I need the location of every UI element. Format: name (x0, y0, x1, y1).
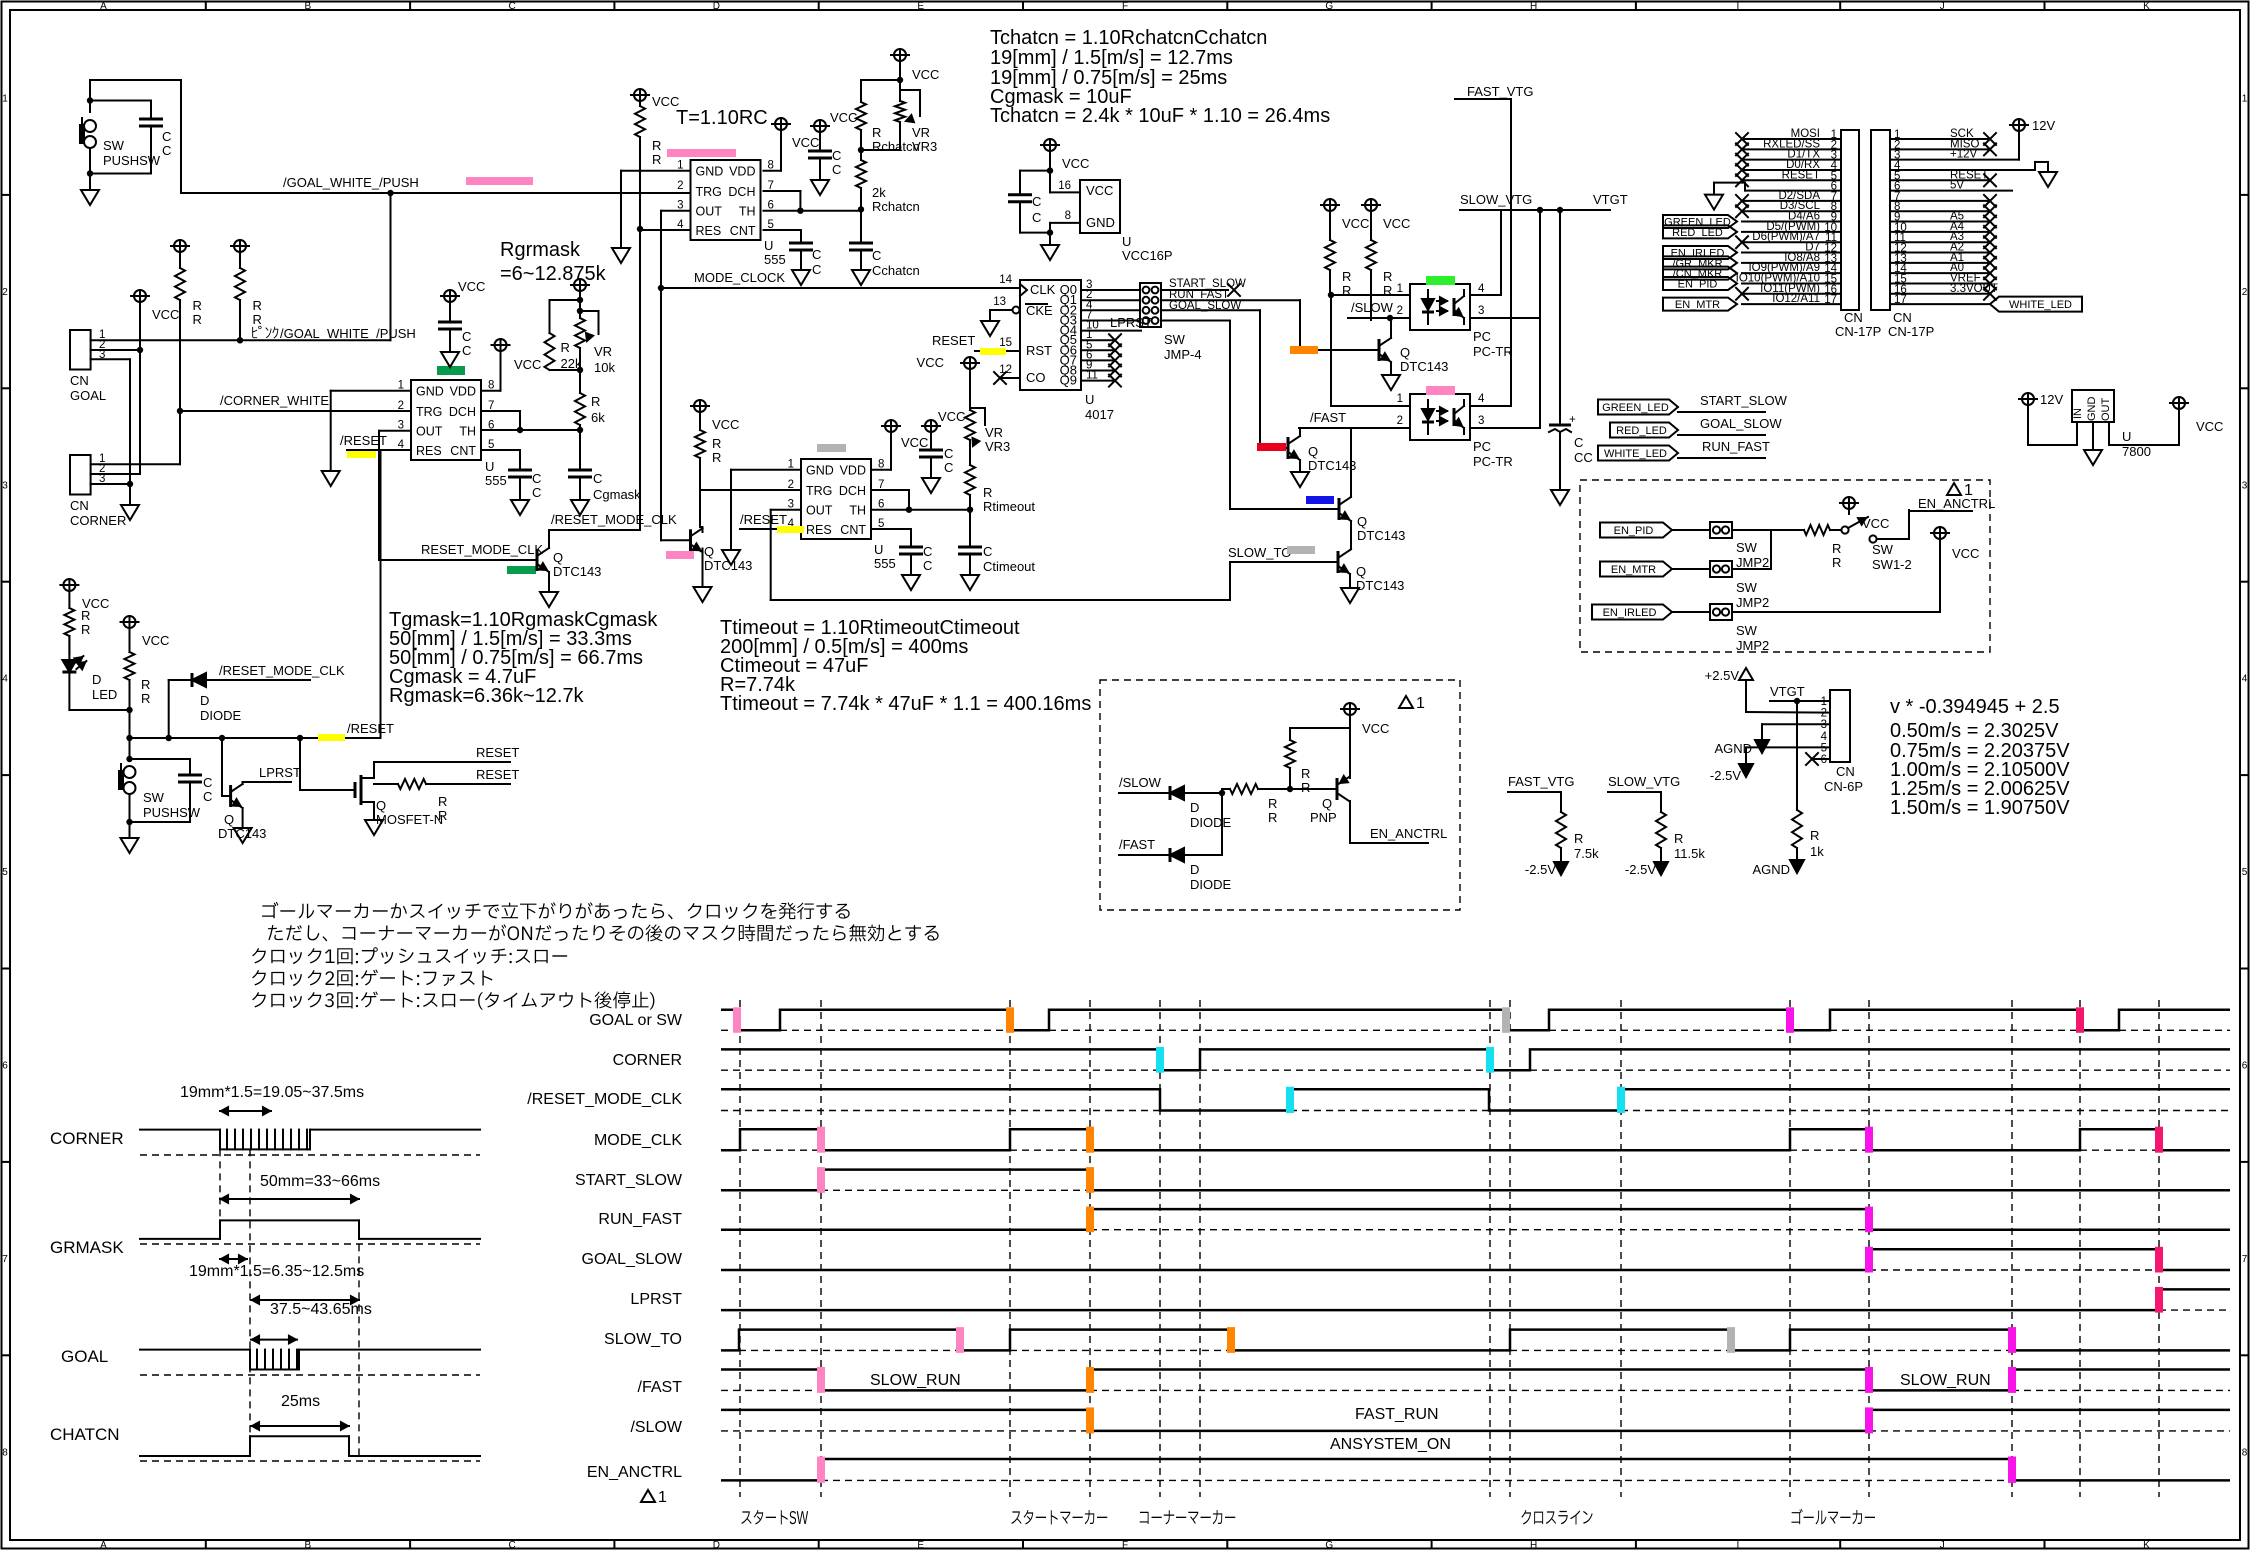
wire 555c gnd pin1 (621, 170, 691, 172)
svg-text:7: 7 (2, 1254, 8, 1265)
highlight red (goal_slow base) (1257, 443, 1286, 451)
timing arrow small (220, 1258, 247, 1260)
svg-text:U: U (2122, 429, 2131, 444)
cn17 left row 3 D1/TX (1742, 159, 1841, 161)
svg-text:RESET: RESET (1782, 169, 1820, 181)
wire 555c cnt pin5 (764, 229, 802, 231)
capacitor C C (reset sw) (130, 758, 191, 760)
svg-text:C: C (1032, 194, 1041, 209)
svg-text:SLOW_VTG: SLOW_VTG (1460, 192, 1532, 207)
highlight orange (run_fast base) (1290, 346, 1318, 354)
capacitor C C (555t vcc) (925, 420, 937, 432)
svg-text:DCH: DCH (839, 484, 866, 498)
wire LPRST (242, 782, 244, 784)
svg-text:+2.5V: +2.5V (1705, 668, 1740, 683)
svg-text:H: H (1530, 1540, 1537, 1550)
svg-text:SLOW_RUN: SLOW_RUN (870, 1372, 961, 1389)
power VCC (chatcn divider) (894, 49, 906, 61)
svg-text:C: C (832, 162, 841, 177)
svg-text:I: I (1737, 1, 1740, 12)
cn17 left row 9 D4/A6 (1742, 221, 1841, 223)
svg-text:MODE_CLOCK: MODE_CLOCK (694, 270, 785, 285)
svg-text:RES: RES (696, 224, 722, 238)
resistor R (reset pullup) (124, 616, 136, 628)
svg-text:R: R (1832, 541, 1841, 556)
svg-text:GND: GND (696, 165, 724, 179)
svg-text:VR3: VR3 (912, 139, 937, 154)
agnd -2.5V (slow) (1654, 862, 1668, 875)
ground (clock gate) (702, 549, 704, 588)
resistor R (reset series) (374, 783, 398, 785)
svg-text:D: D (713, 1, 720, 12)
svg-text:15: 15 (999, 337, 1012, 349)
svg-text:C: C (872, 248, 881, 263)
wire 555t th pin6 (871, 509, 970, 511)
svg-text:R: R (81, 622, 90, 637)
ground (555g pin1) (322, 471, 340, 486)
svg-text:1: 1 (1416, 695, 1425, 712)
svg-text:3: 3 (1478, 305, 1484, 317)
svg-text:C: C (1032, 210, 1041, 225)
svg-text:5: 5 (2242, 867, 2248, 878)
svg-text:J: J (1940, 1540, 1945, 1550)
IC U 555 (chattering timer) (691, 160, 761, 240)
svg-text:+: + (1569, 414, 1576, 426)
svg-text:SLOW_VTG: SLOW_VTG (1608, 774, 1680, 789)
svg-text:C: C (812, 247, 821, 262)
wire goal pin2 (91, 349, 140, 351)
svg-text:D: D (1190, 862, 1199, 877)
wire Q0 (1081, 289, 1140, 291)
svg-text:11.5k: 11.5k (1674, 846, 1705, 861)
svg-text:6: 6 (2242, 1061, 2248, 1072)
svg-text:RED_LED: RED_LED (1672, 227, 1723, 239)
resistor R (mode clk pullup) (634, 89, 646, 101)
svg-text:VTGT: VTGT (1770, 684, 1805, 699)
power VCC (pnp) (1344, 703, 1356, 715)
svg-text:/RESET_MODE_CLK: /RESET_MODE_CLK (527, 1091, 682, 1108)
svg-text:PC-TR: PC-TR (1473, 344, 1513, 359)
svg-text:U: U (1085, 392, 1094, 407)
svg-text:R: R (141, 691, 150, 706)
svg-text:555: 555 (874, 556, 896, 571)
svg-text:16: 16 (1058, 180, 1071, 192)
svg-text:5: 5 (2, 867, 8, 878)
resistor R (pnp base) (1290, 727, 1350, 729)
capacitor C C (555g cnt) (508, 469, 532, 472)
capacitor C CC (vtgt) (1559, 210, 1561, 425)
svg-text:3.3VOUT: 3.3VOUT (1950, 283, 1998, 295)
wire 555c dch pin7 (764, 190, 801, 192)
svg-text:Q: Q (1322, 796, 1332, 811)
note jp 1 (262, 902, 850, 920)
svg-text:RESET: RESET (932, 333, 975, 348)
svg-text:CO: CO (1026, 370, 1046, 385)
svg-text:SW: SW (1736, 580, 1758, 595)
wire Q3 (1081, 320, 1140, 322)
power 12V (cn17) (2013, 119, 2025, 131)
note jp 4 (252, 969, 492, 986)
power VCC (cn pull mid) (134, 290, 146, 302)
svg-text:Cgmask: Cgmask (593, 487, 641, 502)
svg-text:2: 2 (1397, 415, 1403, 427)
cn17 right row 3 +12V (1890, 159, 2019, 161)
svg-text:TRG: TRG (696, 185, 722, 199)
svg-text:12V: 12V (2040, 392, 2063, 407)
cn17 right row 9 A5 (1890, 221, 1990, 223)
svg-text:R: R (1342, 269, 1351, 284)
timing arrow grmask (220, 1198, 359, 1200)
transistor Q PNP (1336, 778, 1339, 800)
highlight pink (goal wire) (466, 177, 533, 185)
power VCC (regulator out) (2108, 422, 2110, 445)
svg-text:MOSFET-N: MOSFET-N (376, 812, 443, 827)
svg-text:EN_ANCTRL: EN_ANCTRL (1370, 826, 1447, 841)
svg-text:R: R (1301, 780, 1310, 795)
svg-text:RUN_FAST: RUN_FAST (1702, 439, 1770, 454)
flag RED_LED (1610, 423, 1678, 438)
highlight pink (clock gate) (666, 551, 694, 559)
svg-text:R: R (438, 808, 447, 823)
potentiometer VR VR3 (timeout) (964, 357, 976, 369)
resistor 2k Rchatcn (860, 150, 862, 160)
power VCC (555g vdd) (495, 339, 507, 351)
svg-text:19mm*1.5=6.35~12.5ms: 19mm*1.5=6.35~12.5ms (189, 1263, 364, 1280)
svg-text:C: C (923, 544, 932, 559)
svg-text:v * -0.394945 + 2.5: v * -0.394945 + 2.5 (1890, 696, 2060, 718)
svg-text:SLOW_RUN: SLOW_RUN (1900, 1372, 1991, 1389)
cn17 right row 1 SCK (1890, 138, 1990, 140)
resistor R Rchatcn (860, 80, 862, 102)
event label cross line (1522, 1510, 1593, 1525)
svg-text:A: A (100, 1, 107, 12)
cn17 right row 17 IO13 (1890, 303, 1990, 305)
svg-text:GREEN_LED: GREEN_LED (1602, 402, 1669, 414)
svg-text:VCC: VCC (1062, 156, 1089, 171)
potentiometer VR VR3 (chatcn) (895, 101, 905, 122)
svg-text:4: 4 (1821, 731, 1828, 743)
transistor Q DTC143 (slow driver) (1300, 349, 1379, 351)
wire opto1 pin3 (1470, 317, 1540, 319)
svg-text:SW: SW (1164, 332, 1186, 347)
svg-text:SW1-2: SW1-2 (1872, 557, 1912, 572)
svg-text:CN: CN (1893, 310, 1912, 325)
svg-text:G: G (1325, 1, 1333, 12)
wire /reset to 555g (380, 450, 382, 738)
svg-text:R: R (253, 312, 262, 327)
transistor Q DTC143 (fast driver) (1260, 447, 1288, 449)
svg-text:2: 2 (2, 287, 8, 298)
cn17 left row 16 IO11(PWM) (1742, 293, 1841, 295)
resistor R (corner pullup) (174, 240, 186, 252)
wire clock gate collector (702, 527, 704, 532)
svg-text:1: 1 (1821, 696, 1827, 708)
svg-text:/GOAL_WHITE_/PUSH: /GOAL_WHITE_/PUSH (283, 175, 419, 190)
svg-text:5V: 5V (1950, 180, 1964, 192)
svg-text:555: 555 (485, 473, 507, 488)
IC U 7800 regulator (2072, 390, 2114, 422)
svg-text:VCC: VCC (917, 355, 944, 370)
svg-text:GOAL: GOAL (61, 1347, 108, 1366)
svg-text:K: K (2143, 1, 2150, 12)
svg-text:C: C (162, 143, 171, 158)
svg-text:VCC: VCC (938, 409, 965, 424)
capacitor C Ctimeout (958, 546, 982, 549)
timing CORNER waveform (140, 1129, 220, 1131)
wire Q1 (1081, 299, 1140, 301)
wire 555t res pin4 (740, 528, 801, 530)
svg-text:DTC143: DTC143 (1400, 359, 1448, 374)
ground (555t gnd) (722, 550, 740, 565)
wire /CORNER_WHITE (180, 410, 411, 412)
svg-text:17: 17 (1824, 294, 1837, 306)
svg-text:CN: CN (70, 373, 89, 388)
svg-text:B: B (304, 1540, 311, 1550)
power VCC (555c vdd) (775, 118, 787, 130)
svg-text:LED: LED (92, 687, 117, 702)
svg-text:EN_MTR: EN_MTR (1675, 299, 1720, 311)
flag WHITE_LED (1598, 446, 1678, 461)
svg-text:GOAL: GOAL (70, 388, 106, 403)
svg-text:0.50m/s = 2.3025V: 0.50m/s = 2.3025V (1890, 720, 2059, 742)
dashed box delta1 (enable jumpers) (1580, 480, 1990, 652)
diode D DIODE (slow) (1169, 786, 1172, 800)
optocoupler PC PC-TR (fast) (1410, 394, 1470, 440)
flag EN_IRLED (1592, 605, 1672, 620)
svg-text:RES: RES (416, 444, 442, 458)
svg-text:/GOAL_WHITE_/PUSH: /GOAL_WHITE_/PUSH (280, 326, 416, 341)
svg-text:SLOW_TO: SLOW_TO (604, 1331, 682, 1348)
wire collector /RESET_MODE_CLK (548, 530, 550, 548)
wire opto2 pin1 (1331, 405, 1410, 407)
svg-text:PC: PC (1473, 329, 1491, 344)
svg-text:C: C (983, 544, 992, 559)
wire opto2 pin3 (1470, 427, 1540, 429)
wire Q5 nc (1081, 339, 1115, 341)
svg-text:7: 7 (2242, 1254, 2248, 1265)
svg-text:GND: GND (1086, 215, 1115, 230)
optocoupler PC PC-TR (slow) (1410, 284, 1470, 330)
svg-text:GND: GND (2086, 397, 2098, 422)
svg-text:RESET: RESET (476, 767, 519, 782)
push switch SW PUSHSW (reset) (126, 756, 132, 762)
svg-text:Q: Q (224, 812, 234, 827)
svg-text:FAST_VTG: FAST_VTG (1508, 774, 1574, 789)
label delta1 upper (1947, 483, 1961, 495)
svg-text:4: 4 (2242, 674, 2248, 685)
svg-text:R: R (1383, 269, 1392, 284)
svg-text:VCC: VCC (792, 135, 819, 150)
svg-text:U: U (485, 459, 494, 474)
cn17 left row 14 IO9(PWM)/A9 (1742, 272, 1841, 274)
svg-text:/SLOW: /SLOW (630, 1419, 682, 1436)
svg-text:VCC: VCC (142, 633, 169, 648)
svg-text:C: C (508, 1540, 515, 1550)
svg-text:VCC: VCC (1383, 216, 1410, 231)
svg-text:R: R (712, 450, 721, 465)
highlight yellow (reset timeout) (777, 526, 804, 533)
highlight blue (lprst base) (1306, 496, 1334, 504)
svg-text:R: R (1301, 766, 1310, 781)
svg-text:1: 1 (658, 1489, 667, 1506)
event label start sw (741, 1510, 808, 1525)
svg-text:GOAL_SLOW: GOAL_SLOW (1169, 300, 1241, 312)
ground (fast driver) (1291, 472, 1309, 487)
svg-text:VR: VR (594, 344, 612, 359)
diode D DIODE (reset mode clk) (168, 680, 170, 738)
svg-text:ANSYSTEM_ON: ANSYSTEM_ON (1330, 1436, 1451, 1453)
svg-text:2: 2 (2242, 287, 2248, 298)
event label start marker (1011, 1510, 1107, 1525)
cn17 left row 13 IO8/A8 (1742, 262, 1841, 264)
svg-text:SW: SW (1872, 542, 1894, 557)
note jp 2 (268, 924, 939, 941)
cn17 left row 11 D6(PWM)/A7 (1742, 241, 1841, 243)
wire 555t dch pin7 (871, 489, 909, 491)
highlight gray (555 timeout) (817, 444, 846, 452)
capacitor C C (vcc16p) (1020, 170, 1050, 172)
transistor Q DTC143 (lprst) (221, 738, 223, 796)
wire 555g vdd pin8 (481, 390, 501, 392)
wire 555t cnt pin5 (871, 528, 911, 530)
svg-text:RESET: RESET (476, 745, 519, 760)
svg-text:3: 3 (2242, 480, 2248, 491)
svg-text:4: 4 (1478, 283, 1485, 295)
svg-text:TH: TH (739, 205, 756, 219)
timing dashed v3 (358, 1220, 360, 1456)
wire Q6 nc (1081, 349, 1115, 351)
timing CHATCN waveform (140, 1455, 250, 1457)
svg-text:/RESET: /RESET (740, 512, 787, 527)
wire /GOAL_WHITE_/PUSH top (180, 80, 182, 193)
svg-text:F: F (1122, 1, 1128, 12)
wire goal pin1 net (91, 339, 391, 341)
svg-text:C: C (593, 471, 602, 486)
svg-text:R: R (193, 298, 202, 313)
resistor R (timeout trg pullup) (694, 400, 706, 412)
highlight green (opto slow) (1426, 276, 1455, 285)
svg-text:19mm*1.5=19.05~37.5ms: 19mm*1.5=19.05~37.5ms (180, 1084, 364, 1101)
svg-text:VCC: VCC (1342, 216, 1369, 231)
svg-text:4: 4 (2, 674, 8, 685)
cn17 right row 8 nc (1890, 210, 1990, 212)
svg-text:7.5k: 7.5k (1574, 846, 1599, 861)
flag EN_MTR (1600, 562, 1672, 577)
resistor R 1k (1796, 701, 1798, 810)
ground (corner cn) (129, 484, 131, 505)
power VCC (en_irled) (1934, 527, 1946, 539)
highlight gray (slow_to) (1287, 546, 1315, 554)
svg-text:EN_IRLED: EN_IRLED (1603, 607, 1657, 619)
svg-text:555: 555 (764, 252, 786, 267)
svg-text:R: R (652, 152, 661, 167)
svg-text:VCC: VCC (901, 435, 928, 450)
svg-text:B: B (304, 1, 311, 12)
svg-text:VR3: VR3 (985, 439, 1010, 454)
wire /RESET rail (130, 737, 381, 739)
svg-text:DTC143: DTC143 (704, 558, 752, 573)
svg-text:EN_MTR: EN_MTR (1611, 564, 1656, 576)
svg-text:C: C (532, 471, 541, 486)
svg-text:Rgrmask: Rgrmask (500, 239, 581, 261)
svg-text:VCC: VCC (830, 110, 857, 125)
wire Q8 nc (1081, 370, 1115, 372)
svg-text:DCH: DCH (728, 185, 755, 199)
ground (Q reset mode clk) (548, 572, 550, 592)
wire 555c out pin3 (661, 210, 691, 212)
svg-text:SLOW_TO: SLOW_TO (1228, 545, 1291, 560)
svg-text:C: C (532, 485, 541, 500)
svg-text:CN-17P: CN-17P (1835, 324, 1881, 339)
cn17 right row 2 MISO (1890, 148, 1990, 150)
ground (slow driver) (1382, 375, 1400, 390)
svg-text:/FAST: /FAST (1119, 837, 1155, 852)
agnd -2.5V (fast) (1554, 862, 1568, 875)
svg-text:I: I (1737, 1540, 1740, 1550)
svg-text:C: C (944, 446, 953, 461)
ground (mosfet) (365, 820, 383, 835)
svg-text:R: R (1674, 831, 1683, 846)
cn17 left row 4 D0/RX (1742, 169, 1841, 171)
wire 555g gnd pin1 (331, 390, 411, 392)
svg-text:VCC: VCC (2196, 419, 2223, 434)
svg-text:Q: Q (1357, 514, 1367, 529)
svg-text:Cchatcn: Cchatcn (872, 263, 920, 278)
svg-text:25ms: 25ms (281, 1393, 320, 1410)
svg-text:Q: Q (553, 550, 563, 565)
svg-text:CLK: CLK (1030, 282, 1056, 297)
svg-text:VCC: VCC (1952, 546, 1979, 561)
svg-text:DTC143: DTC143 (553, 564, 601, 579)
svg-text:CC: CC (1574, 450, 1593, 465)
svg-text:Tchatcn = 2.4k * 10uF * 1.10 =: Tchatcn = 2.4k * 10uF * 1.10 = 26.4ms (990, 105, 1330, 127)
wire corner pin1 (91, 463, 180, 465)
ground (reset sw) (129, 822, 131, 838)
svg-text:TRG: TRG (416, 405, 442, 419)
svg-text:CN: CN (1844, 310, 1863, 325)
capacitor C C (555c cnt) (789, 242, 813, 245)
wire Q7 nc (1081, 359, 1115, 361)
svg-text:4: 4 (1478, 393, 1485, 405)
IC U 555 (grmask timer) (411, 380, 481, 460)
svg-text:PC: PC (1473, 439, 1491, 454)
ground (vcc16p) (1049, 233, 1051, 245)
svg-text:8: 8 (2242, 1447, 2248, 1458)
cn17 left row 12 D7 (1742, 252, 1841, 254)
svg-text:R: R (141, 677, 150, 692)
highlight yellow (/reset rail) (318, 734, 345, 741)
wire 555g th pin6 (481, 429, 580, 431)
svg-text:U: U (764, 238, 773, 253)
label delta1 (timing) (641, 1490, 655, 1502)
svg-text:+12V: +12V (1950, 149, 1978, 161)
resistor R 6k (579, 370, 581, 393)
wire opto1 pin4 (1470, 294, 1501, 296)
svg-text:CN: CN (70, 498, 89, 513)
svg-text:WHITE_LED: WHITE_LED (2009, 299, 2072, 311)
svg-text:K: K (2143, 1540, 2150, 1550)
wire 555g out pin3 (379, 430, 411, 432)
capacitor C C (555c vcc) (814, 120, 826, 132)
label pink-jp (252, 326, 278, 339)
svg-text:7800: 7800 (2122, 444, 2151, 459)
svg-text:2: 2 (1397, 305, 1403, 317)
svg-text:VCC: VCC (458, 279, 485, 294)
wire opto1 pin1 (1330, 294, 1410, 296)
svg-text:CNT: CNT (450, 444, 476, 458)
push switch SW PUSHSW (goal/push) (90, 79, 181, 81)
svg-text:R: R (712, 436, 721, 451)
